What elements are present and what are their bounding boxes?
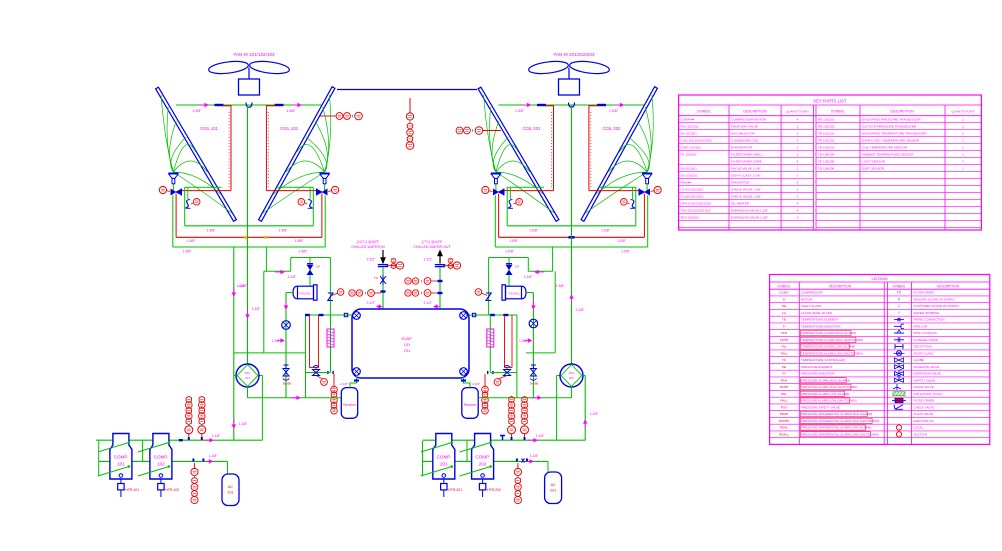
svg-text:2-1/2": 2-1/2" — [424, 301, 434, 305]
svg-text:4: 4 — [797, 209, 799, 213]
svg-text:102: 102 — [157, 462, 165, 467]
svg-text:2: 2 — [797, 167, 799, 171]
svg-text:ANGLE VALVE 1-1/8": ANGLE VALVE 1-1/8" — [731, 167, 761, 171]
svg-text:COMPRESSOR-MOTOR: COMPRESSOR-MOTOR — [731, 118, 767, 122]
discharge pressure/temperature instrument column x=201.8 — [198, 396, 206, 440]
svg-text:ANGLE VALVE: ANGLE VALVE — [914, 385, 934, 389]
svg-text:1: 1 — [962, 167, 964, 171]
svg-text:TEMPERATURE ALARM LOW (ALARM): TEMPERATURE ALARM LOW (ALARM) — [801, 345, 855, 349]
svg-text:2: 2 — [962, 132, 964, 136]
ambient temperature sensors TE-104/204 stack — [406, 98, 414, 149]
svg-text:CHECK VALVE: CHECK VALVE — [914, 406, 935, 410]
svg-text:WATER OR BRINE: WATER OR BRINE — [914, 311, 940, 315]
liquid header right — [526, 352, 555, 354]
svg-text:201: 201 — [440, 462, 448, 467]
svg-text:201: 201 — [569, 376, 574, 380]
receiver inlet line left — [248, 397, 342, 399]
svg-text:CHILLED WATER IN: CHILLED WATER IN — [351, 245, 385, 249]
svg-text:DESCRIPTION: DESCRIPTION — [890, 110, 914, 114]
svg-text:PRESSURE ELEMENT: PRESSURE ELEMENT — [801, 365, 833, 369]
svg-text:1-5/8": 1-5/8" — [515, 109, 525, 113]
distributor funnel / angle valve HV / expansion valve TEV (bank 101 right coil) — [263, 95, 339, 247]
bank1 center vertical to four-way valve — [247, 105, 249, 364]
svg-text:SG: SG — [782, 304, 787, 308]
svg-text:LOCAL: LOCAL — [914, 426, 924, 430]
svg-text:LIQUID LEVEL GLASS: LIQUID LEVEL GLASS — [801, 311, 832, 315]
svg-text:2: 2 — [797, 125, 799, 129]
svg-text:SYMBOL: SYMBOL — [892, 284, 906, 288]
svg-text:COMP.: COMP. — [437, 455, 451, 460]
svg-text:SAFETY VALVE: SAFETY VALVE — [914, 379, 936, 383]
fan motor assembly FAN-M 101/102/103 — [208, 52, 290, 95]
svg-text:LIGHT SENSOR: LIGHT SENSOR — [862, 160, 886, 164]
svg-text:1-5/8": 1-5/8" — [556, 284, 566, 288]
svg-text:FD: FD — [897, 291, 902, 295]
svg-text:1-1/8": 1-1/8" — [239, 422, 249, 426]
svg-text:TALL: TALL — [780, 352, 787, 356]
svg-text:EVAP./COND. TEMPERATURE SENSOR: EVAP./COND. TEMPERATURE SENSOR — [862, 139, 920, 143]
svg-text:101: 101 — [245, 376, 250, 380]
distributor funnel / angle valve HV / expansion valve TEV (bank 101 left coil) — [159, 95, 231, 247]
svg-text:1-3/8": 1-3/8" — [272, 339, 282, 343]
svg-text:EVAP.: EVAP. — [402, 336, 413, 341]
svg-text:FILTER DRIER: FILTER DRIER — [914, 399, 935, 403]
svg-text:PE: PE — [782, 365, 786, 369]
svg-text:PE-101/201: PE-101/201 — [818, 118, 835, 122]
table KEY PARTS LIST — [679, 95, 982, 230]
svg-text:M: M — [783, 298, 786, 302]
svg-text:VENDOR SCOPE OF SUPPLY: VENDOR SCOPE OF SUPPLY — [914, 298, 956, 302]
evaporator to receiver drops — [340, 375, 480, 388]
svg-text:FLANGED UNION: FLANGED UNION — [914, 338, 939, 342]
svg-text:FS101: FS101 — [329, 333, 333, 342]
svg-text:PRESSURE DIFFERENTIAL ALARM LO: PRESSURE DIFFERENTIAL ALARM LOW (ALARM) — [801, 426, 871, 430]
svg-text:TEMPERATURE ALARM HIGH (ALARM): TEMPERATURE ALARM HIGH (ALARM) — [801, 331, 856, 335]
svg-text:FS 101/201: FS 101/201 — [681, 153, 697, 157]
svg-text:CHECK VALVE 1-1/8": CHECK VALVE 1-1/8" — [731, 195, 761, 199]
svg-text:LG: LG — [782, 311, 787, 315]
svg-text:COIL 101/102/201/202: COIL 101/102/201/202 — [681, 139, 712, 143]
svg-text:TE-102/202: TE-102/202 — [818, 139, 834, 143]
svg-text:PAH: PAH — [781, 379, 787, 383]
svg-text:CV: CV — [515, 265, 519, 269]
blue dashes discharge header right — [500, 436, 505, 441]
svg-text:GLOBE: GLOBE — [914, 358, 924, 362]
svg-text:QUANTITY/UNIT: QUANTITY/UNIT — [786, 110, 809, 114]
svg-text:AC: AC — [551, 483, 556, 487]
svg-text:TE-105/205: TE-105/205 — [818, 160, 834, 164]
svg-text:COIL 101: COIL 101 — [200, 126, 218, 131]
svg-text:1-5/8": 1-5/8" — [207, 229, 217, 233]
svg-text:COMPRESSOR: COMPRESSOR — [801, 291, 824, 295]
svg-text:PRESSURE DIFFERENTIAL ALARM HI: PRESSURE DIFFERENTIAL ALARM HIGH (SHUTDO… — [801, 419, 879, 423]
svg-text:FSV: FSV — [245, 371, 251, 375]
svg-text:1-5/8": 1-5/8" — [505, 250, 515, 254]
svg-text:HTR-202: HTR-202 — [487, 488, 501, 492]
svg-text:EJECTION OIL: EJECTION OIL — [914, 419, 935, 423]
svg-text:FILTER DRIER SHELL: FILTER DRIER SHELL — [731, 153, 763, 157]
svg-text:COMP.: COMP. — [114, 455, 128, 460]
svg-text:1-1/8": 1-1/8" — [536, 434, 546, 438]
svg-text:TAH: TAH — [781, 331, 787, 335]
svg-text:4: 4 — [797, 118, 799, 122]
filter drier FS + TEV cluster left — [305, 315, 353, 414]
svg-text:CHILLED WATER OUT: CHILLED WATER OUT — [413, 245, 451, 249]
inlet water gauges trio — [386, 258, 404, 269]
check valve CV-103 branch left — [264, 247, 344, 353]
svg-text:2: 2 — [797, 216, 799, 220]
svg-text:2-1/8": 2-1/8" — [340, 382, 348, 386]
svg-text:4: 4 — [797, 139, 799, 143]
svg-text:PI: PI — [783, 372, 786, 376]
coil sensors row bank2 — [456, 127, 501, 135]
orange joints on red manifold bank1 — [244, 236, 247, 239]
svg-text:HTR-101/102/201/202: HTR-101/102/201/202 — [681, 202, 712, 206]
svg-text:TEMPERATURE ELEMENT: TEMPERATURE ELEMENT — [801, 318, 839, 322]
svg-text:201: 201 — [404, 348, 411, 353]
svg-text:4: 4 — [797, 202, 799, 206]
svg-text:FAN-##: FAN-## — [681, 181, 692, 185]
svg-text:PAL: PAL — [781, 392, 787, 396]
svg-text:DISCHARGE TEMPERATURE TRANSDUC: DISCHARGE TEMPERATURE TRANSDUCER — [862, 132, 927, 136]
svg-text:101: 101 — [117, 462, 125, 467]
svg-text:2-1/2": 2-1/2" — [367, 258, 377, 262]
bank 201 lower manifolds — [495, 226, 647, 254]
svg-text:COIL 201: COIL 201 — [523, 126, 541, 131]
filter drier FS + TEV cluster right — [467, 315, 517, 414]
svg-text:EXPANSION VALVE 1-1/8": EXPANSION VALVE 1-1/8" — [731, 209, 768, 213]
receiver inlet line right — [478, 397, 571, 399]
suction header left — [99, 460, 228, 462]
svg-text:CV-101/102/103: CV-101/102/103 — [681, 188, 704, 192]
discharge pressure/temperature instrument column x=511.5 — [508, 396, 516, 440]
bank 101 lower manifolds — [173, 226, 325, 254]
svg-text:EXPANSION VALVE: EXPANSION VALVE — [914, 372, 941, 376]
svg-text:FSV101: FSV101 — [299, 292, 310, 296]
svg-text:1-1/8": 1-1/8" — [212, 434, 222, 438]
bank2 center vertical to four-way valve — [571, 105, 573, 364]
svg-text:1-5/8": 1-5/8" — [279, 229, 289, 233]
svg-text:2: 2 — [962, 139, 964, 143]
svg-text:PDAL: PDAL — [780, 426, 788, 430]
svg-text:PSV: PSV — [781, 406, 788, 410]
svg-text:1-1/8": 1-1/8" — [288, 275, 298, 279]
svg-text:SYMBOL: SYMBOL — [777, 284, 791, 288]
svg-text:PE-102/202: PE-102/202 — [818, 125, 835, 129]
evaporator EVAP 101/201 — [352, 309, 469, 378]
svg-text:1-5/8": 1-5/8" — [601, 229, 611, 233]
svg-text:COMP.: COMP. — [779, 291, 789, 295]
liquid receiver Receiver — [341, 388, 357, 419]
svg-text:FLOAT VALVE: FLOAT VALVE — [914, 412, 933, 416]
svg-text:TEV-101/102/201/202: TEV-101/102/201/202 — [681, 209, 711, 213]
svg-text:1-5/8": 1-5/8" — [295, 239, 305, 243]
suction line instrument stack x=194.5 — [191, 463, 198, 504]
svg-text:1-1/8": 1-1/8" — [590, 412, 600, 416]
svg-text:TEMPERATURE CONTROLLER: TEMPERATURE CONTROLLER — [801, 358, 846, 362]
liquid receiver Receiver — [462, 388, 478, 419]
discharge header right — [423, 439, 586, 441]
svg-text:TE-101/201: TE-101/201 — [818, 132, 834, 136]
svg-text:PRESSURE ALARM LOW (ALARM): PRESSURE ALARM LOW (ALARM) — [801, 392, 849, 396]
svg-text:CV-201/202/203: CV-201/202/203 — [681, 195, 704, 199]
svg-text:TE-104/204: TE-104/204 — [818, 153, 834, 157]
svg-text:2-1/8": 2-1/8" — [576, 308, 586, 312]
svg-text:1-5/8": 1-5/8" — [509, 239, 519, 243]
suction drop to AC201 — [547, 461, 549, 472]
svg-text:1-5/8": 1-5/8" — [617, 239, 627, 243]
evaporator side stubs — [344, 313, 476, 316]
liquid line check/solenoid branch SV-101 — [272, 293, 291, 398]
svg-text:PRESSURE SAFETY VALVE: PRESSURE SAFETY VALVE — [801, 406, 840, 410]
svg-text:1-5/8": 1-5/8" — [621, 250, 631, 254]
svg-text:FAN-M 201/202/203: FAN-M 201/202/203 — [553, 52, 595, 57]
svg-text:101: 101 — [404, 342, 411, 347]
blue dashes suction header — [192, 459, 194, 462]
compressor COMP 102 — [138, 434, 179, 498]
svg-text:PDAHH: PDAHH — [779, 419, 790, 423]
svg-text:1: 1 — [962, 153, 964, 157]
suction accumulator AC 201 — [545, 472, 562, 504]
svg-text:1-5/8": 1-5/8" — [193, 109, 203, 113]
blue dash on red manifold bank2 — [569, 236, 575, 239]
svg-text:2: 2 — [962, 146, 964, 150]
svg-text:1-5/8": 1-5/8" — [183, 250, 193, 254]
outlet water gauges trio — [443, 258, 461, 269]
svg-text:Receiver: Receiver — [343, 403, 357, 407]
svg-text:Receiver: Receiver — [464, 403, 478, 407]
svg-text:TEE FITTING: TEE FITTING — [914, 345, 933, 349]
svg-text:3: 3 — [797, 188, 799, 192]
svg-text:1-5/8": 1-5/8" — [187, 239, 197, 243]
svg-text:CUSTOMER SCOPE OF SUPPLY: CUSTOMER SCOPE OF SUPPLY — [914, 304, 960, 308]
svg-text:TEMPERATURE ALARM HIGH (SHUTDO: TEMPERATURE ALARM HIGH (SHUTDOWN) — [801, 338, 863, 342]
svg-text:201: 201 — [550, 489, 556, 493]
compressor COMP 101 — [98, 434, 139, 498]
chilled water inlet pipe — [351, 240, 388, 309]
svg-text:TAL: TAL — [781, 345, 787, 349]
four-way pilot valve FSV101 — [286, 285, 317, 300]
svg-text:INSULATION (COLD): INSULATION (COLD) — [914, 392, 943, 396]
svg-text:AC: AC — [228, 485, 233, 489]
svg-text:COIL 202: COIL 202 — [603, 126, 621, 131]
fan motor assembly FAN-M 201/202/203 — [528, 52, 610, 95]
svg-text:FOUR-WAY VALVE: FOUR-WAY VALVE — [731, 125, 758, 129]
liquid line check/solenoid branch SV-201 — [519, 293, 538, 398]
suction accumulator AC 101 — [222, 474, 239, 506]
four-way reversing valve FSV 201 — [560, 364, 585, 398]
svg-text:QUANTITY/UNIT: QUANTITY/UNIT — [952, 110, 975, 114]
svg-text:MOTOR: MOTOR — [801, 298, 813, 302]
svg-text:PIPING CONNECTION: PIPING CONNECTION — [914, 318, 945, 322]
condenser frame top line — [337, 89, 477, 91]
svg-text:SIGHT GLASS 1-1/8": SIGHT GLASS 1-1/8" — [731, 174, 761, 178]
discharge header left — [96, 439, 262, 441]
blue dashes discharge header left — [179, 439, 183, 441]
svg-text:TE-106/206: TE-106/206 — [818, 167, 834, 171]
svg-text:PRESSURE ALARM HIGH (SHUTDOWN): PRESSURE ALARM HIGH (SHUTDOWN) — [801, 385, 857, 389]
svg-text:CHECK VALVE 1-1/8": CHECK VALVE 1-1/8" — [731, 188, 761, 192]
svg-text:PDAH: PDAH — [780, 412, 789, 416]
svg-text:FILTER DRIER: FILTER DRIER — [914, 291, 935, 295]
svg-text:TEMPERATURE INDICATOR: TEMPERATURE INDICATOR — [801, 325, 841, 329]
check valve CV-203 branch right — [475, 247, 555, 353]
discharge pressure/temperature instrument column x=188.8 — [185, 396, 193, 440]
condenser coil bank COIL 101/102 — [156, 87, 335, 222]
svg-text:HV-101/201: HV-101/201 — [681, 167, 698, 171]
svg-text:SUCTION: SUCTION — [914, 433, 928, 437]
svg-text:2-1/2": 2-1/2" — [424, 258, 434, 262]
svg-text:HTR-101: HTR-101 — [125, 488, 139, 492]
compressor COMP 202 — [460, 434, 501, 498]
svg-text:TI: TI — [783, 325, 786, 329]
suction header right — [423, 460, 549, 462]
svg-text:COMP.: COMP. — [154, 455, 168, 460]
svg-text:PIPE CAP: PIPE CAP — [914, 325, 928, 329]
svg-text:2: 2 — [962, 118, 964, 122]
svg-text:Bx-BB: Bx-BB — [530, 382, 538, 386]
chilled water outlet pipe — [413, 240, 451, 309]
table LEGEND — [770, 275, 990, 445]
svg-text:DESCRIPTION: DESCRIPTION — [829, 284, 851, 288]
svg-text:PAHH: PAHH — [780, 385, 788, 389]
svg-text:COIL 102: COIL 102 — [280, 126, 298, 131]
svg-text:HTR-201: HTR-201 — [448, 488, 462, 492]
svg-text:FSV: FSV — [569, 371, 575, 375]
svg-text:LEGEND: LEGEND — [871, 276, 888, 281]
water line instruments row left — [349, 290, 386, 309]
svg-text:HTR-102: HTR-102 — [165, 488, 179, 492]
svg-text:1-5/8": 1-5/8" — [299, 250, 309, 254]
svg-text:ACCUMULATOR: ACCUMULATOR — [731, 132, 755, 136]
coil sensors row bank1 — [320, 112, 362, 120]
condenser coil bank COIL 201/202 — [478, 87, 657, 222]
svg-text:KEY PARTS LIST: KEY PARTS LIST — [813, 98, 846, 103]
svg-text:EVAP. 101/201: EVAP. 101/201 — [681, 146, 702, 150]
water line instruments rows right — [405, 278, 443, 309]
svg-text:TAHH: TAHH — [780, 338, 788, 342]
four-way pilot valve FSV201 — [502, 285, 533, 300]
svg-text:COMP-##: COMP-## — [681, 118, 695, 122]
liquid header left — [234, 352, 306, 354]
svg-text:CONDENSER COIL: CONDENSER COIL — [731, 139, 759, 143]
svg-text:PRESSURE DIFFERENTIAL ALARM LO: PRESSURE DIFFERENTIAL ALARM LOW (SHUTDOW… — [801, 433, 879, 437]
svg-text:COMP.: COMP. — [475, 455, 489, 460]
svg-text:1-1/8": 1-1/8" — [209, 454, 219, 458]
svg-text:PRESSURE INDICATOR: PRESSURE INDICATOR — [801, 372, 835, 376]
svg-text:2-1/8": 2-1/8" — [472, 382, 480, 386]
four-way valve right drop (x=585.2) — [584, 376, 586, 441]
svg-text:TE: TE — [782, 318, 786, 322]
svg-text:PRESSURE ALARM LOW (SHUTDOWN): PRESSURE ALARM LOW (SHUTDOWN) — [801, 399, 857, 403]
svg-text:SYMBOL: SYMBOL — [697, 110, 711, 114]
svg-text:2: 2 — [797, 146, 799, 150]
svg-text:DISCHARGE PRESSURE TRANSDUCER: DISCHARGE PRESSURE TRANSDUCER — [862, 118, 921, 122]
svg-text:SYMBOL: SYMBOL — [831, 110, 845, 114]
svg-text:SG-101/201: SG-101/201 — [681, 174, 698, 178]
distributor funnel / angle valve HV / expansion valve TEV (bank 201 right coil) — [586, 95, 662, 247]
svg-text:6: 6 — [797, 181, 799, 185]
svg-text:FAN-M 101/102/103: FAN-M 101/102/103 — [233, 52, 275, 57]
svg-text:PDALL: PDALL — [779, 433, 789, 437]
svg-text:3: 3 — [797, 195, 799, 199]
svg-text:(7°C) @44°F: (7°C) @44°F — [422, 240, 444, 244]
svg-text:FAN-MOTOR: FAN-MOTOR — [731, 181, 750, 185]
svg-text:1-5/8": 1-5/8" — [238, 284, 248, 288]
svg-text:AC 101/201: AC 101/201 — [681, 132, 698, 136]
svg-text:SUCTION PRESSURE TRANSDUCER: SUCTION PRESSURE TRANSDUCER — [862, 125, 917, 129]
svg-text:FS201: FS201 — [488, 333, 492, 342]
svg-text:FSV201: FSV201 — [509, 292, 520, 296]
svg-text:2: 2 — [797, 153, 799, 157]
svg-text:(13°C) @55°F: (13°C) @55°F — [357, 240, 381, 244]
svg-text:202: 202 — [479, 462, 487, 467]
svg-text:1-5/8": 1-5/8" — [287, 109, 297, 113]
left compressor loop verticals — [98, 441, 100, 476]
compressor COMP 201 — [421, 434, 462, 498]
svg-text:SOLENOID VALVE: SOLENOID VALVE — [914, 365, 940, 369]
svg-text:COIL TEMPERATURE SENSOR: COIL TEMPERATURE SENSOR — [862, 146, 908, 150]
svg-text:1-3/8": 1-3/8" — [519, 339, 529, 343]
svg-text:PIPE COUPLING: PIPE COUPLING — [914, 331, 938, 335]
svg-text:1-5/8": 1-5/8" — [529, 229, 539, 233]
svg-text:PRESSURE ALARM HIGH (ALARM): PRESSURE ALARM HIGH (ALARM) — [801, 379, 850, 383]
svg-text:PRESSURE DIFFERENTIAL ALARM HI: PRESSURE DIFFERENTIAL ALARM HIGH (ALARM) — [801, 412, 872, 416]
svg-text:2: 2 — [962, 125, 964, 129]
svg-text:1-1/8": 1-1/8" — [530, 454, 540, 458]
svg-text:EVAPORATOR: EVAPORATOR — [731, 146, 753, 150]
hot-gas drop line bank1 left (x=233.8) — [233, 247, 235, 440]
svg-text:2: 2 — [797, 174, 799, 178]
svg-text:TE-103/203: TE-103/203 — [818, 146, 834, 150]
svg-text:1-5/8": 1-5/8" — [609, 109, 619, 113]
svg-text:2-1/8": 2-1/8" — [252, 307, 262, 311]
check symbols on suction right — [522, 458, 525, 462]
svg-text:4: 4 — [797, 160, 799, 164]
svg-text:Bx-BB: Bx-BB — [283, 382, 291, 386]
svg-text:FSV 101/201: FSV 101/201 — [681, 125, 699, 129]
four-way reversing valve FSV 101 — [234, 364, 259, 398]
svg-text:OIL HEATER: OIL HEATER — [731, 202, 750, 206]
svg-text:101: 101 — [228, 491, 234, 495]
svg-text:DESCRIPTION: DESCRIPTION — [937, 284, 959, 288]
svg-text:SIGHT GLASS: SIGHT GLASS — [914, 352, 934, 356]
svg-text:2-1/2": 2-1/2" — [367, 301, 377, 305]
svg-text:TEV-103/203: TEV-103/203 — [681, 216, 699, 220]
suction drop to AC101 — [227, 461, 229, 474]
temperature control valve TC — [374, 275, 386, 285]
svg-text:2: 2 — [797, 132, 799, 136]
svg-text:FILTER DRIER CORE: FILTER DRIER CORE — [731, 160, 762, 164]
svg-text:SIGHT GLASS: SIGHT GLASS — [801, 304, 821, 308]
discharge pressure/temperature instrument column x=524.5 — [521, 396, 529, 440]
svg-text:EQPT SENSOR: EQPT SENSOR — [862, 167, 885, 171]
svg-text:AMBIENT TEMPERATURE SENSOR: AMBIENT TEMPERATURE SENSOR — [862, 153, 914, 157]
svg-text:CV: CV — [316, 265, 320, 269]
svg-text:EXPANSION VALVE 1-3/8": EXPANSION VALVE 1-3/8" — [731, 216, 768, 220]
svg-text:PALL: PALL — [780, 399, 788, 403]
svg-text:1: 1 — [962, 160, 964, 164]
svg-text:DESCRIPTION: DESCRIPTION — [743, 110, 767, 114]
distributor funnel / angle valve HV / expansion valve TEV (bank 201 left coil) — [482, 95, 554, 247]
svg-text:1-1/8": 1-1/8" — [524, 275, 534, 279]
right compressor loop verticals — [422, 441, 424, 476]
svg-text:TEMPERATURE ALARM LOW (SHUTDOW: TEMPERATURE ALARM LOW (SHUTDOWN) — [801, 352, 863, 356]
suction line instrument stack x=517.9 — [514, 463, 521, 504]
